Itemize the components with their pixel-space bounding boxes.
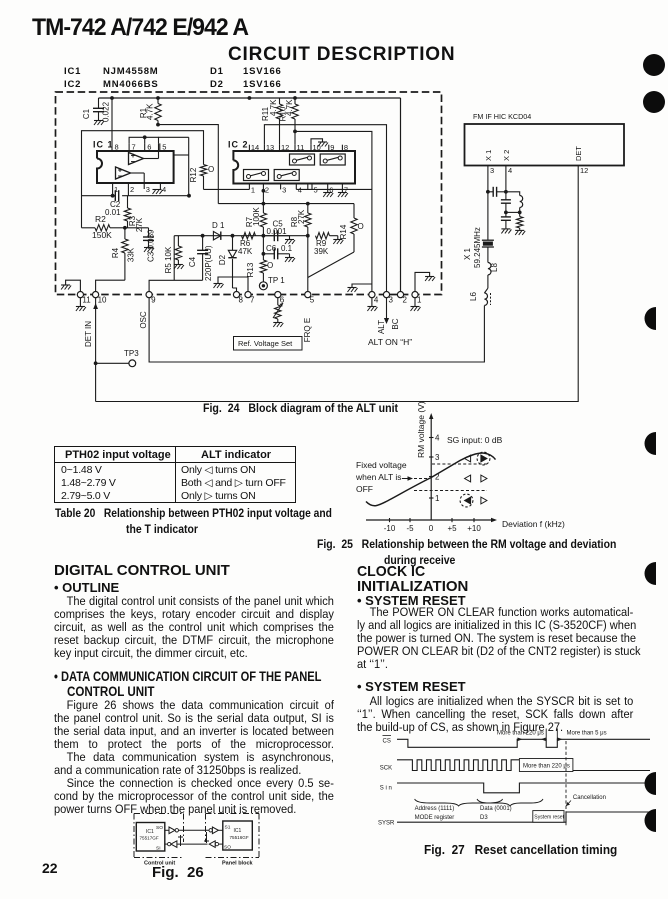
fig26 label panel block	[222, 861, 254, 867]
fig25 S curve	[366, 453, 496, 506]
fig27 SYSR label	[378, 821, 395, 827]
fig27 SCK trace	[397, 760, 650, 771]
IC1 pin 5	[160, 143, 167, 152]
fig25 y ticks	[429, 434, 440, 504]
analog switch S3	[244, 170, 269, 181]
fig25 dashed level 3	[432, 463, 487, 465]
connector pin 8	[233, 292, 243, 305]
IC1 pin 8	[112, 98, 119, 152]
FM IF pin X1 (3)	[484, 150, 494, 192]
capacitor X1-X2 coupling	[486, 187, 508, 197]
wire top inner loop	[159, 136, 189, 138]
IC1 pin 1	[113, 183, 119, 196]
fig26 IC1 75516GF	[223, 821, 253, 851]
fig27 Sin label	[380, 786, 392, 792]
wire control node bus	[218, 202, 354, 206]
IC2 pin 8	[342, 143, 348, 152]
connector pin 2	[397, 292, 407, 305]
fig25 caption	[317, 537, 616, 551]
analog switch S4	[274, 170, 299, 181]
fig25 fixed voltage annotation	[355, 460, 429, 494]
fig25 x ticks	[384, 518, 482, 533]
wire pin 10 to R4	[96, 280, 125, 291]
diode D2 1SV166	[218, 236, 237, 292]
wire OSC run to L6	[149, 298, 484, 362]
capacitor X2 series	[501, 192, 511, 215]
IC2 bottom pin 6	[328, 184, 334, 195]
FM IF pin DET (12)	[574, 146, 588, 175]
signal label ALT	[377, 320, 386, 334]
fig27 cancellation label	[566, 795, 606, 806]
capacitor to ground	[501, 212, 512, 233]
op-amp U1b	[116, 167, 131, 179]
fig27 annotation more than 220us boxed	[519, 759, 573, 772]
signal label OSC	[139, 311, 148, 329]
wire IC2 pin4 to rail	[296, 188, 372, 190]
FM IF pin X2 (4)	[502, 150, 512, 192]
page title	[32, 14, 248, 42]
wire R14 to pin 5 rail	[308, 252, 354, 278]
ground IC2 pin10 control	[311, 139, 328, 147]
fig27 annotation more than 220us top	[497, 729, 546, 742]
label ALT ON H	[368, 337, 412, 347]
resistor R11 4.7K	[261, 98, 283, 145]
table 20	[54, 446, 296, 503]
section title	[228, 44, 455, 66]
resistor damping to ground	[515, 212, 525, 235]
inductor L8	[488, 263, 499, 289]
IC2 pin 11	[295, 143, 304, 152]
wire op-amp outputs	[130, 143, 159, 183]
inductor tank coil	[506, 192, 523, 215]
resistor R5 10K	[164, 236, 184, 274]
FM IF HIC KCD04 block	[465, 112, 625, 166]
resistor R12 0	[189, 165, 214, 190]
wire IC1 pins 7-6-5 link	[129, 135, 158, 143]
resistor R3 27K	[124, 196, 144, 232]
right column	[357, 563, 425, 580]
wire R12 to IC2 pin1	[204, 188, 250, 190]
resistor R1 4.7K	[139, 98, 161, 125]
IC2 bottom pin 3	[281, 184, 287, 195]
fig27 CS label	[383, 736, 392, 745]
fig26 IC1 75517GF	[136, 823, 165, 852]
ground stub above pin 4	[348, 284, 372, 292]
ground IC2 pin 6	[323, 189, 333, 197]
capacitor C5 0.001	[263, 220, 295, 245]
IC2 pin 13	[264, 143, 274, 152]
wire OSC pin 9 to C4	[149, 280, 203, 291]
parts list	[64, 66, 81, 77]
capacitor C6 0.1	[262, 244, 296, 262]
potentiometer on pin 6	[273, 298, 283, 327]
resistor R6 47K	[238, 233, 256, 257]
wire branch to C4 bottom	[173, 236, 175, 281]
fig27 Sin trace	[397, 783, 650, 793]
ground near pin 8	[214, 277, 249, 291]
connector pin 1	[412, 292, 422, 305]
IC2 bottom pin 2	[263, 184, 269, 195]
IC2 pin 12	[280, 143, 290, 152]
connector pin 3	[383, 292, 393, 305]
connector pin 7	[245, 292, 255, 305]
arrow ALT ON H	[384, 298, 389, 324]
resistor R10 4.7K	[279, 98, 299, 145]
inductor L6	[469, 288, 491, 305]
IC1 pin 4 ground	[153, 183, 167, 194]
fig27 annotation more than 5us	[557, 729, 606, 742]
fig26 junction bars	[178, 832, 209, 846]
fig27 address brace	[415, 799, 503, 806]
table caption	[55, 506, 332, 520]
fig27 label data	[480, 806, 512, 821]
fig27 system reset box	[533, 811, 565, 823]
capacitor C4 220P(UU)	[188, 236, 213, 281]
wire IC2 pin2 down	[262, 189, 266, 204]
fig27 data brace	[477, 799, 543, 806]
connector pin 9	[146, 292, 156, 305]
ground stub above pin 1	[415, 272, 435, 291]
fig24 caption	[203, 401, 398, 415]
crystal X1 59.245MHz	[463, 192, 494, 268]
IC2 bottom pin 7	[342, 184, 348, 195]
wire inner loop to bottom bus	[188, 137, 190, 195]
wire IC1 output to bus	[174, 154, 189, 156]
fig26 control unit dash-dot boundary	[134, 814, 184, 858]
wire BC rail from pin 2 to top bus	[400, 98, 402, 291]
connector pin 5	[305, 292, 315, 305]
arrow DET IN direction	[93, 303, 98, 309]
resistor R2 150K	[82, 214, 125, 240]
ALT unit dashed enclosure	[56, 92, 442, 295]
fig27 SCK label	[380, 766, 392, 772]
test point TP3	[96, 349, 140, 367]
op-amp IC1 NJM4558M body	[93, 140, 174, 184]
diode D1 1SV166	[212, 221, 225, 240]
capacitor C1 0.022	[82, 98, 111, 125]
fig25 x-axis	[366, 518, 497, 522]
IC1 pin 3	[144, 183, 150, 194]
IC1 pin 6	[145, 143, 152, 152]
signal label DET IN	[84, 321, 93, 347]
fig25 indicator row 3	[460, 494, 487, 507]
fig26 SO wire	[165, 827, 223, 834]
resistor R4 33K	[111, 226, 136, 280]
fig25 label Deviation	[502, 519, 565, 529]
ground IC2 pin 7	[338, 189, 348, 197]
connector pin 4	[369, 292, 379, 305]
analog switch IC2 MN4066BS body	[228, 140, 355, 184]
signal label BC	[391, 318, 400, 329]
fig25 axis label RM voltage	[416, 401, 426, 458]
op-amp U1a	[129, 153, 144, 165]
fig26 panel block dash-dot boundary	[206, 814, 260, 858]
left column	[54, 562, 230, 579]
fig25 indicator row 2	[465, 475, 487, 482]
IC1 pin 7	[129, 143, 136, 152]
connector pin 10	[93, 292, 108, 305]
capacitor C2 0.01	[105, 190, 121, 217]
connector pin 6	[275, 292, 285, 305]
analog switch S1	[290, 154, 315, 165]
IC1 pin 2	[128, 183, 134, 196]
fig26 SI wire	[165, 841, 223, 848]
IC2 bottom pin 5	[312, 184, 318, 195]
test point TP1	[259, 276, 285, 290]
wire R1 output to analog bus	[156, 123, 218, 204]
fig25 label SG input	[447, 435, 503, 445]
fig27 CS trace	[397, 739, 650, 747]
wire pin 5 rail	[307, 236, 309, 292]
fig25 y-axis	[429, 413, 433, 520]
wire IC1 bottom bus	[82, 194, 191, 198]
resistor R9 39K	[314, 233, 343, 257]
fig27 SYSR trace	[397, 812, 650, 822]
label box Ref. Voltage Set	[234, 337, 303, 351]
IC2 bottom pin 1	[249, 184, 255, 195]
resistor R7 100K	[245, 204, 267, 236]
connector pin 11	[77, 292, 91, 305]
wire DET IN down	[94, 298, 98, 402]
fig27 cancellation dashed line	[565, 741, 567, 827]
capacitor C3 0.039	[125, 228, 156, 262]
signal label FRQ E	[303, 318, 312, 342]
IC2 bottom pin 4	[296, 184, 302, 195]
fig25 indicator row 1	[465, 452, 490, 465]
resistor R14 0	[339, 204, 364, 252]
ground below pin 1	[411, 298, 421, 311]
fig26 label control unit	[144, 861, 175, 867]
ground below pin 11	[76, 298, 86, 311]
resistor R13 0	[246, 236, 273, 282]
IC2 pin 14	[249, 143, 259, 152]
analog switch S2	[320, 154, 345, 165]
fig25 dashed level low	[414, 490, 487, 492]
wire IC2 pin11 branch to pin 4	[293, 130, 372, 292]
wire IC2 pin13 to ALT pin 3	[264, 125, 386, 292]
IC2 pin 9	[329, 143, 335, 152]
fig27 label address	[415, 806, 455, 821]
wire detector signal bus	[174, 234, 309, 238]
wire pin 11 ground stub	[61, 280, 80, 291]
wire IC1 feedback loop	[82, 131, 204, 228]
resistor R8 27K	[290, 184, 311, 236]
wire top supply bus	[99, 96, 401, 100]
wire DET return	[96, 166, 579, 402]
IC2 pin 10	[311, 143, 321, 152]
ground below pin 4	[367, 298, 377, 311]
